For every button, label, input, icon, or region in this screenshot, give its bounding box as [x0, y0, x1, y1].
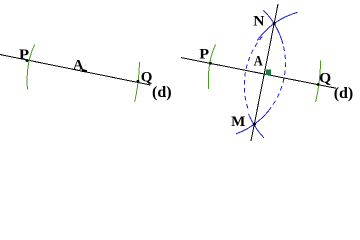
solid blue arc through M (P-centered circle): [236, 110, 270, 134]
node N dot: [273, 22, 276, 25]
solid blue arc through N (Q-centered circle): [257, 12, 297, 40]
solid blue arc through N (P-centered circle): [264, 10, 283, 44]
svg-text:N: N: [253, 13, 264, 29]
svg-text:P: P: [199, 46, 209, 62]
perpendicular line NM: [251, 4, 278, 141]
svg-text:Q: Q: [319, 70, 331, 86]
node P (right) dot: [209, 62, 212, 65]
svg-text:(d): (d): [334, 85, 354, 102]
svg-text:(d): (d): [152, 84, 172, 101]
node Q (left) dot: [137, 80, 140, 83]
line (d) right: [181, 58, 336, 89]
green arc at P (left): [27, 44, 35, 89]
svg-text:M: M: [231, 114, 245, 130]
svg-text:Q: Q: [141, 69, 153, 85]
svg-text:P: P: [19, 47, 29, 63]
green arc at Q (right): [316, 60, 321, 102]
green arc at Q (left): [135, 62, 140, 102]
line (d) left: [0, 55, 151, 86]
node M dot: [253, 123, 256, 126]
tick at A (left): [82, 69, 87, 73]
point A marker (green square): [266, 70, 271, 76]
dashed arc centered Q (bulges left): [244, 37, 262, 112]
green arc at P (right): [208, 45, 215, 89]
svg-text:A: A: [254, 54, 263, 70]
solid blue arc through M (Q-centered circle): [249, 114, 265, 138]
node Q (right) dot: [317, 83, 320, 86]
dashed arc centered P (bulges right): [265, 39, 286, 115]
node P (left) dot: [26, 59, 29, 62]
